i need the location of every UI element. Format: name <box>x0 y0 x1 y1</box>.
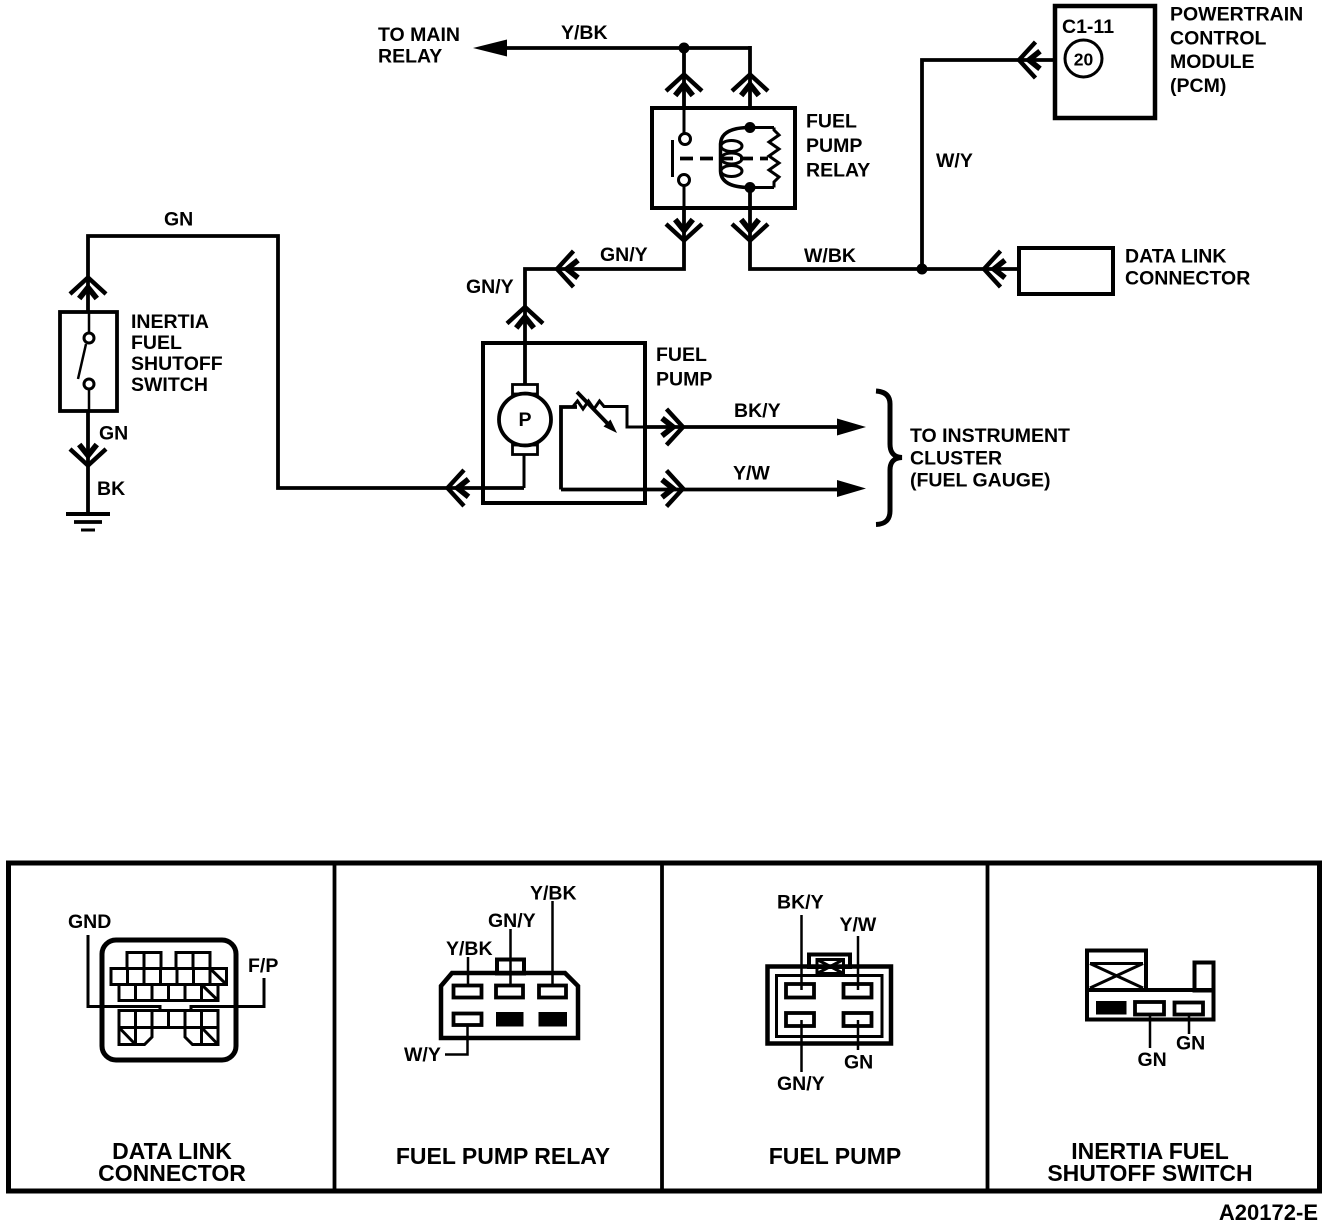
panel title INERTIA FUEL SHUTOFF SWITCH <box>1047 1138 1252 1186</box>
relay connector wire Y/BK right <box>551 901 554 985</box>
svg-text:Y/BK: Y/BK <box>561 22 608 44</box>
svg-text:GN/Y: GN/Y <box>777 1073 825 1095</box>
svg-text:POWERTRAIN: POWERTRAIN <box>1170 4 1303 26</box>
svg-text:TO INSTRUMENT: TO INSTRUMENT <box>910 425 1070 447</box>
relay coil wire down <box>748 188 752 209</box>
label FUEL PUMP <box>656 344 712 391</box>
relay connector wire Y/BK left <box>467 957 470 985</box>
svg-text:Y/BK: Y/BK <box>530 883 577 905</box>
arrowhead to main relay <box>473 40 507 57</box>
fuel pump connector wire GN <box>857 1020 860 1050</box>
inertia switch connector top strip <box>1090 962 1143 965</box>
connector chevron Y/W <box>662 471 683 507</box>
pump motor lead bottom <box>523 455 526 489</box>
pump motor top cap <box>513 385 538 395</box>
fuel pump relay connector body <box>441 973 578 1038</box>
svg-text:GN: GN <box>164 209 193 231</box>
svg-text:P: P <box>518 409 531 431</box>
svg-text:DATA LINK: DATA LINK <box>1125 246 1226 268</box>
relay connector top tab <box>497 960 524 974</box>
label DATA LINK CONNECTOR <box>1125 246 1250 290</box>
connector chevron GN below switch <box>70 445 106 466</box>
inertia switch connector right tab <box>1195 963 1214 991</box>
DLC F/P wire <box>191 978 264 1011</box>
relay resistor <box>750 128 779 188</box>
junction node Y/BK <box>679 43 690 54</box>
connector chevron W/Y at PCM <box>1019 42 1040 78</box>
connector chevron GN at switch <box>70 278 106 299</box>
svg-text:GN/Y: GN/Y <box>488 910 536 932</box>
wire relay pin3 up <box>748 46 752 110</box>
brace to instrument cluster <box>876 391 902 525</box>
svg-text:BK/Y: BK/Y <box>734 400 781 422</box>
PCM pin 20 <box>1065 40 1102 77</box>
wire Y/W to instrument cluster <box>561 488 837 492</box>
switch contact lower <box>84 379 94 389</box>
powertrain control module box <box>1055 6 1155 118</box>
connector chevron pin3 <box>732 75 768 96</box>
relay connector pin Y/BK right <box>539 986 566 998</box>
inertia switch connector blocked pin <box>1096 1001 1127 1015</box>
svg-text:PUMP: PUMP <box>656 369 712 391</box>
svg-text:(FUEL GAUGE): (FUEL GAUGE) <box>910 470 1050 492</box>
svg-text:FUEL: FUEL <box>131 332 182 354</box>
fuel pump connector body <box>768 967 892 1044</box>
wire GN/BK to ground <box>86 411 90 513</box>
relay switch contact lower <box>679 175 690 186</box>
relay connector wire W/Y <box>445 1025 468 1055</box>
svg-text:CLUSTER: CLUSTER <box>910 447 1002 469</box>
connector chevron at pump left <box>448 470 469 506</box>
svg-text:Y/W: Y/W <box>733 463 770 485</box>
connector chevron GN/Y into pump <box>507 307 543 328</box>
fuel pump relay box <box>652 108 795 208</box>
relay coil loop 3 <box>721 166 742 177</box>
relay internal node bottom <box>745 182 756 193</box>
relay switch wire stubs <box>683 110 686 208</box>
switch wire stubs <box>88 312 91 411</box>
inertia switch connector wire GN 1 <box>1149 1015 1152 1049</box>
relay connector pin W/Y <box>454 1014 482 1026</box>
svg-text:RELAY: RELAY <box>806 160 870 182</box>
relay connector pin Y/BK left <box>454 986 482 998</box>
svg-text:20: 20 <box>1074 50 1094 70</box>
svg-text:CONNECTOR: CONNECTOR <box>98 1160 246 1186</box>
svg-text:W/Y: W/Y <box>936 150 973 172</box>
fuel pump connector pin Y/W <box>844 984 872 998</box>
DLC pin grid row 2 <box>111 969 227 985</box>
connector table frame <box>9 863 1320 1191</box>
wire GN/Y relay to fuel pump <box>525 208 684 385</box>
label TO INSTRUMENT CLUSTER (FUEL GAUGE) <box>910 425 1070 492</box>
svg-text:FUEL: FUEL <box>656 344 707 366</box>
panel title DATA LINK CONNECTOR <box>98 1138 246 1186</box>
relay switch contact upper <box>680 134 691 145</box>
svg-text:TO MAIN: TO MAIN <box>378 24 460 46</box>
svg-text:BK/Y: BK/Y <box>777 892 824 914</box>
connector chevron GN/Y horizontal <box>557 251 578 287</box>
svg-text:GN: GN <box>1176 1033 1205 1055</box>
switch blade <box>78 344 86 379</box>
pump motor body <box>499 394 551 446</box>
relay coil loop 2 <box>721 153 742 164</box>
svg-text:FUEL: FUEL <box>806 111 857 133</box>
svg-text:GN/Y: GN/Y <box>466 276 514 298</box>
DLC connector body <box>102 940 236 1060</box>
switch contact upper <box>84 333 94 343</box>
svg-text:Y/W: Y/W <box>840 914 877 936</box>
relay coil loop 1 <box>721 141 742 152</box>
junction node W/Y <box>917 264 928 275</box>
table divider 1 <box>333 863 337 1191</box>
inertia switch connector wire GN 2 <box>1188 1015 1191 1035</box>
fuel sender arrow <box>577 392 608 424</box>
svg-text:SHUTOFF: SHUTOFF <box>131 353 223 375</box>
DLC GND wire <box>88 935 160 1011</box>
wire BK/Y to instrument cluster <box>645 425 839 429</box>
fuel pump connector wire Y/W <box>857 936 860 990</box>
fuel pump connector wire BK/Y <box>800 915 803 990</box>
svg-text:GN/Y: GN/Y <box>600 244 648 266</box>
label TO MAIN RELAY <box>378 24 460 68</box>
fuel sender resistor squiggle <box>573 401 645 427</box>
connector chevron BK/Y <box>662 409 683 445</box>
fuel pump connector wire GN/Y <box>800 1020 803 1072</box>
arrowhead Y/W <box>837 480 866 497</box>
svg-text:C1-11: C1-11 <box>1062 16 1114 38</box>
inertia switch connector pin GN 1 <box>1135 1002 1164 1015</box>
DLC pin grid row 1 <box>127 953 210 969</box>
svg-text:GN: GN <box>99 423 128 445</box>
fuel pump connector pin GN <box>844 1013 872 1026</box>
svg-text:GN: GN <box>1138 1049 1167 1071</box>
connector chevron relay pin4 <box>732 220 768 241</box>
fuel pump connector inner wall <box>777 976 883 1037</box>
svg-text:CONTROL: CONTROL <box>1170 27 1266 49</box>
svg-text:RELAY: RELAY <box>378 46 442 68</box>
pump motor bottom cap <box>513 445 538 455</box>
DLC pin grid bottom block <box>119 1011 218 1045</box>
relay connector blocked pin 1 <box>496 1012 524 1027</box>
label INERTIA FUEL SHUTOFF SWITCH <box>131 311 223 396</box>
relay connector wire GN/Y <box>509 929 512 985</box>
data link connector box <box>1019 248 1113 294</box>
inertia switch connector main bar <box>1087 990 1214 1020</box>
fuel pump box <box>483 343 645 503</box>
DLC pin grid row 3 <box>119 985 218 1001</box>
wire GN inertia switch to fuel pump <box>88 236 524 488</box>
wire W/BK relay to data link connector <box>750 208 1019 269</box>
connector chevron relay pin2 <box>666 220 702 241</box>
relay internal node top <box>745 122 756 133</box>
svg-text:SHUTOFF SWITCH: SHUTOFF SWITCH <box>1047 1160 1252 1186</box>
relay coil outline <box>721 128 751 188</box>
relay connector pin GN/Y <box>496 986 523 998</box>
inertia fuel shutoff switch box <box>60 312 117 411</box>
label POWERTRAIN CONTROL MODULE (PCM) <box>1170 4 1303 97</box>
relay switch blade <box>671 140 674 177</box>
svg-text:FUEL PUMP RELAY: FUEL PUMP RELAY <box>396 1143 610 1169</box>
wire W/Y to PCM <box>922 60 1055 269</box>
svg-text:CONNECTOR: CONNECTOR <box>1125 268 1250 290</box>
svg-text:PUMP: PUMP <box>806 135 862 157</box>
svg-text:(PCM): (PCM) <box>1170 75 1226 97</box>
fuel sender loop <box>561 407 577 490</box>
fuel sender arrowhead <box>604 420 618 434</box>
inertia switch connector left block <box>1087 951 1146 991</box>
inertia switch connector pin GN 2 <box>1175 1003 1204 1015</box>
svg-text:BK: BK <box>97 478 125 500</box>
svg-text:GN: GN <box>844 1052 873 1074</box>
svg-text:GND: GND <box>68 911 111 933</box>
connector chevron W/BK <box>984 251 1005 287</box>
connector chevron pin1 <box>666 75 702 96</box>
wire relay pin1 up <box>682 48 686 110</box>
arrowhead BK/Y <box>837 419 866 436</box>
svg-text:W/Y: W/Y <box>404 1044 441 1066</box>
inertia switch connector X box <box>1090 964 1143 989</box>
svg-text:F/P: F/P <box>248 955 278 977</box>
fuel pump connector pin GN/Y <box>786 1013 814 1026</box>
relay connector blocked pin 2 <box>539 1012 568 1027</box>
fuel pump connector top tab <box>809 955 850 968</box>
svg-text:INERTIA: INERTIA <box>131 311 209 333</box>
svg-text:SWITCH: SWITCH <box>131 374 208 396</box>
ground <box>66 514 110 530</box>
fuel pump connector key with X <box>817 960 844 974</box>
wire Y/BK to main relay <box>503 46 750 50</box>
svg-text:FUEL PUMP: FUEL PUMP <box>769 1143 901 1169</box>
relay armature dashed link <box>680 157 768 161</box>
fuel pump connector pin BK/Y <box>786 984 814 998</box>
svg-text:W/BK: W/BK <box>804 245 856 267</box>
svg-text:Y/BK: Y/BK <box>446 938 493 960</box>
svg-text:MODULE: MODULE <box>1170 51 1255 73</box>
table divider 2 <box>660 863 664 1191</box>
label FUEL PUMP RELAY <box>806 111 870 182</box>
svg-text:A20172-E: A20172-E <box>1219 1200 1318 1225</box>
table divider 3 <box>986 863 990 1191</box>
